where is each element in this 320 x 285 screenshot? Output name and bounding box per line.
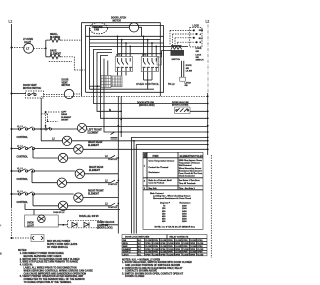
wire branch tops — [46, 40, 49, 57]
svg-text:BLK: BLK — [199, 38, 204, 40]
svg-text:Resistance: Resistance — [149, 171, 161, 174]
connector control board left hatch — [100, 76, 111, 88]
svg-text:L1 L1: L1 L1 — [17, 191, 24, 193]
svg-text:CLOSE: CLOSE — [168, 254, 175, 256]
svg-text:LOCK: LOCK — [193, 26, 200, 28]
wire left front element to L2 — [87, 125, 208, 127]
wire cluster B joiner — [144, 80, 153, 89]
svg-text:ELEMENT: ELEMENT — [61, 117, 72, 119]
svg-text:LIGHT: LIGHT — [27, 225, 34, 227]
connector control board right hatch — [90, 76, 123, 87]
wire latch bus4 — [90, 45, 189, 47]
svg-text:LATCH: LATCH — [123, 253, 129, 256]
svg-text:CLOSE: CLOSE — [160, 252, 167, 254]
element left front — [77, 123, 86, 132]
wire shunt row B — [32, 173, 111, 183]
wire latch cluster drops B — [144, 36, 157, 56]
junction feeder on element wire — [133, 140, 135, 142]
svg-text:SHUNT: SHUNT — [61, 120, 69, 122]
motor door latch — [129, 23, 138, 32]
svg-text:2: 2 — [144, 181, 146, 183]
svg-text:Bay Sub: Bay Sub — [149, 188, 158, 190]
svg-text:OPEN: OPEN — [160, 243, 166, 245]
svg-text:B: B — [200, 42, 202, 44]
wire left rear element row — [41, 140, 208, 142]
svg-text:1450: 1450 — [182, 210, 187, 213]
junction vent drop row — [40, 128, 42, 130]
wire right rear to L2 — [83, 148, 208, 150]
svg-text:RIGHT FRONT: RIGHT FRONT — [88, 191, 104, 193]
wire ribbon w5 — [107, 61, 109, 76]
svg-text:OPEN: OPEN — [190, 249, 196, 251]
svg-text:REAR: REAR — [61, 113, 67, 116]
svg-text:LEFT: LEFT — [61, 111, 67, 113]
svg-text:OPEN: OPEN — [145, 249, 151, 251]
connector power block dashed — [190, 28, 202, 47]
svg-text:OPEN: OPEN — [175, 249, 181, 251]
svg-text:CLOSE: CLOSE — [183, 254, 190, 256]
svg-text:Check Connector: Check Connector — [179, 174, 195, 177]
svg-text:DOOR MTR SW: DOOR MTR SW — [137, 102, 155, 104]
svg-text:2250: 2250 — [182, 221, 187, 223]
svg-text:L2: L2 — [105, 156, 108, 158]
table elements cycles header — [143, 153, 203, 158]
wire cluster B to latch assembly — [162, 51, 172, 58]
table door lock switches frame — [122, 235, 207, 256]
lamp oven light — [24, 43, 34, 53]
svg-text:CLOSE: CLOSE — [153, 243, 160, 245]
element right front shunt — [57, 178, 66, 187]
svg-text:(DOOR LOCK): (DOOR LOCK) — [97, 228, 113, 230]
wire ribbon w3 — [101, 56, 208, 119]
wire lock relay to L2 — [190, 110, 208, 112]
svg-text:OPEN: OPEN — [190, 243, 196, 245]
svg-text:Degrees F: Degrees F — [160, 202, 171, 205]
svg-text:CLOSE: CLOSE — [145, 240, 152, 242]
wire latch bus2 — [90, 39, 161, 41]
svg-text:OPEN: OPEN — [145, 254, 151, 256]
wire bundle verticals — [170, 30, 178, 45]
switch door vent — [26, 91, 44, 98]
svg-text:CLOSE: CLOSE — [197, 243, 204, 245]
svg-text:BROIL: BROIL — [123, 243, 128, 245]
svg-text:OF OVEN MODULE: OF OVEN MODULE — [47, 247, 68, 249]
svg-text:CLOSE: CLOSE — [197, 254, 204, 256]
connector power splice — [31, 235, 44, 242]
svg-text:ELEMENT: ELEMENT — [50, 54, 62, 56]
label door switch column — [196, 48, 204, 62]
box oven control outer — [82, 23, 161, 97]
wire row B — [13, 170, 76, 172]
svg-text:SMALL: SMALL — [50, 33, 59, 36]
svg-text:OPEN: OPEN — [197, 246, 203, 248]
wire latch bus1 — [86, 35, 164, 37]
svg-text:SW: SW — [196, 51, 199, 53]
wire ribbon w1 — [93, 50, 207, 104]
notes left block — [18, 250, 93, 284]
junction lamp branch — [45, 47, 47, 49]
svg-text:LK SW: LK SW — [186, 71, 192, 73]
wire latch bus3 — [90, 42, 164, 44]
svg-text:ELEMENT: ELEMENT — [88, 132, 100, 134]
node connector terminals — [193, 29, 198, 43]
switch surface row B — [18, 169, 34, 172]
wire blower to control box — [62, 39, 82, 41]
switch latch assembly body — [171, 50, 185, 56]
wire L1 to oven light — [12, 47, 25, 49]
svg-text:SW: SW — [185, 85, 188, 87]
svg-text:OPEN: OPEN — [183, 240, 189, 242]
svg-text:FAN: FAN — [94, 29, 99, 32]
wire connector leads bundle — [170, 30, 196, 42]
svg-text:CONNECTED TO THE SENSOR WELL O: CONNECTED TO THE SENSOR WELL OF THE SENS… — [24, 279, 86, 281]
svg-text:OPEN: OPEN — [175, 254, 181, 256]
svg-text:SUPPLY CORD AND LEADS: SUPPLY CORD AND LEADS — [47, 243, 78, 246]
svg-text:CLOSE: CLOSE — [175, 252, 182, 254]
wire vent motor return — [74, 93, 82, 95]
wire mid bus vertical a — [117, 96, 119, 206]
svg-text:(DOOR LOCK): (DOOR LOCK) — [139, 105, 155, 107]
svg-text:ELEMENT: ELEMENT — [89, 170, 101, 172]
junction L1 taps — [11, 47, 13, 240]
svg-text:VENT: VENT — [62, 82, 69, 84]
svg-text:OPEN: OPEN — [197, 252, 203, 254]
wire row C — [13, 193, 74, 195]
table door lock cells — [123, 239, 204, 256]
svg-text:N.O.: N.O. — [138, 252, 142, 254]
svg-text:MOTOR SWITCH: MOTOR SWITCH — [23, 88, 42, 90]
svg-text:CAN CAUSE IMPROPER AND DANGERO: CAN CAUSE IMPROPER AND DANGEROUS OPERATI… — [24, 272, 87, 275]
table door lock header — [125, 236, 189, 239]
junction shunt — [45, 111, 47, 113]
label left rear shunt — [61, 111, 72, 121]
svg-text:PARALLEL SW #3: PARALLEL SW #3 — [79, 215, 99, 218]
notes right block — [122, 258, 192, 278]
wire branch vertical — [45, 40, 47, 57]
svg-text:CLOSE: CLOSE — [153, 254, 160, 256]
resistor bake element — [49, 55, 61, 59]
table elements cycles cell text — [144, 160, 175, 190]
wire console dashed separator — [41, 95, 208, 97]
svg-text:OPEN: OPEN — [168, 246, 174, 248]
wire shunt dashed taps — [41, 114, 58, 121]
junction mid bus dots — [117, 110, 122, 204]
svg-text:5. VERIFY PROPER OPERATION AFT: 5. VERIFY PROPER OPERATION AFTER SERVICI… — [20, 275, 84, 278]
svg-text:OPEN: OPEN — [160, 249, 166, 251]
svg-text:BKR SPLICE POWER: BKR SPLICE POWER — [47, 241, 71, 243]
wire L1 splice dashed — [13, 237, 32, 239]
box latch plunger — [180, 77, 186, 81]
svg-text:OPEN: OPEN — [160, 254, 166, 256]
table elements cycles grid — [143, 152, 203, 190]
svg-text:L1: L1 — [9, 20, 13, 24]
svg-text:3. WIRE ATR PLEASE RETURN PRIM: 3. WIRE ATR PLEASE RETURN PRIMARY TO RAN… — [20, 261, 79, 264]
junction light wire — [62, 224, 64, 226]
svg-text:DOORS CLOSED: DOORS CLOSED — [125, 275, 145, 278]
wire bottom feeder verticals — [132, 137, 208, 233]
svg-text:OPEN: OPEN — [153, 246, 159, 248]
svg-text:N: N — [109, 108, 111, 112]
motor oven vent — [64, 89, 73, 98]
svg-text:CONTROL: CONTROL — [17, 179, 29, 181]
svg-text:L2: L2 — [206, 20, 210, 24]
svg-text:LOCK: LOCK — [196, 54, 202, 56]
svg-text:1. DISCONNECT POWER FROM RANGE: 1. DISCONNECT POWER FROM RANGE — [20, 252, 64, 255]
table sensor resistance text — [150, 192, 196, 229]
switch surface row A — [18, 146, 34, 149]
svg-text:CONTROL: CONTROL — [108, 207, 117, 209]
svg-text:SWITCH: SWITCH — [172, 59, 181, 61]
svg-text:NOTE: 1 to 6 VOLTS DC AT SENSO: NOTE: 1 to 6 VOLTS DC AT SENSOR thru — [155, 226, 196, 229]
svg-text:BAKE: BAKE — [50, 50, 57, 53]
element right front B — [75, 169, 84, 178]
element right rear — [74, 145, 83, 154]
svg-text:BEFORE SERVICING UNIT CHECK: BEFORE SERVICING UNIT CHECK — [24, 256, 62, 258]
svg-text:N.O.: N.O. — [138, 246, 142, 248]
svg-text:OPEN: OPEN — [153, 252, 159, 254]
svg-text:N.C.: N.C. — [138, 254, 142, 256]
wire cluster B drops — [144, 72, 153, 81]
svg-text:CLOSE: CLOSE — [190, 240, 197, 242]
svg-text:CLOSE: CLOSE — [190, 252, 197, 254]
switch surface row C — [18, 192, 34, 195]
lamp bottom oven light — [38, 215, 46, 223]
wire latch motor feed — [93, 26, 129, 28]
wire vent branch down — [40, 98, 42, 141]
label connector pins — [199, 30, 204, 44]
svg-text:RIGHT REAR: RIGHT REAR — [88, 141, 103, 144]
svg-text:CLOSE: CLOSE — [168, 243, 175, 245]
svg-text:L2: L2 — [105, 181, 108, 183]
element bake C — [58, 201, 67, 210]
svg-text:Disconnect Resistance At Oven: Disconnect Resistance At Oven Check — [153, 197, 192, 200]
svg-text:Oven Temperature Sensor: Oven Temperature Sensor — [149, 160, 175, 163]
svg-text:See Notes 1 Thru Door: See Notes 1 Thru Door — [179, 179, 200, 182]
svg-text:CLOSE: CLOSE — [183, 249, 190, 251]
wire latch row to latch switch — [118, 53, 162, 55]
svg-text:OVEN DR LK: OVEN DR LK — [53, 212, 65, 214]
svg-text:CLOSE: CLOSE — [153, 249, 160, 251]
svg-text:2. MOTOR ONLY TO FEATURES DOOR: 2. MOTOR ONLY TO FEATURES DOOR ONLY CLOS… — [20, 258, 80, 261]
svg-text:CONTROL: CONTROL — [17, 137, 29, 139]
element right front C — [74, 193, 83, 202]
svg-text:MOTOR: MOTOR — [113, 20, 122, 22]
svg-text:WHEN SERVICING CONTROLS. WIRIN: WHEN SERVICING CONTROLS. WIRING ERRORS C… — [24, 269, 94, 272]
wire oven light to elements — [34, 47, 45, 49]
svg-text:CLOSE: CLOSE — [160, 246, 167, 248]
box cluster B side stub — [157, 57, 162, 65]
wire bake aux dashed — [49, 61, 72, 63]
svg-text:CONTROL: CONTROL — [17, 202, 29, 204]
svg-text:L2: L2 — [52, 138, 55, 140]
svg-text:CLOSE: CLOSE — [145, 246, 152, 248]
wire light to parallel switch — [58, 224, 67, 226]
box oven control mid — [86, 26, 164, 93]
wire to left front element — [35, 128, 78, 130]
svg-text:450: 450 — [162, 215, 166, 218]
svg-text:DOOR VENT: DOOR VENT — [23, 85, 37, 87]
element left rear — [62, 136, 71, 145]
wire latch assembly drops — [182, 61, 184, 77]
svg-text:OPEN: OPEN — [168, 252, 174, 254]
svg-text:(DOOR LOCKED): (DOOR LOCKED) — [172, 104, 189, 106]
svg-text:OPEN: OPEN — [197, 240, 203, 242]
wire surface top row — [13, 128, 46, 130]
svg-text:ELEMENT: ELEMENT — [88, 194, 100, 196]
wire ribbon w2 — [97, 53, 121, 112]
svg-text:OPEN: OPEN — [175, 243, 181, 245]
svg-text:CLOSE: CLOSE — [175, 246, 182, 248]
wire L1 bus dashed lower — [11, 207, 13, 238]
svg-text:4. USED IN:: 4. USED IN: — [20, 264, 33, 267]
svg-text:Bake In a Preheat, Broil: Bake In a Preheat, Broil — [149, 179, 173, 182]
svg-text:1 3 5 2: 1 3 5 2 — [116, 55, 122, 57]
wire ribbon w4 — [104, 59, 208, 133]
svg-text:SW: SW — [196, 57, 199, 59]
switch latch assembly arrows — [171, 46, 182, 50]
switch shunt B contact — [111, 180, 119, 183]
svg-text:OVEN: OVEN — [27, 223, 34, 225]
svg-text:LT: LT — [26, 47, 29, 51]
wire mid bus vertical b — [120, 96, 122, 137]
svg-text:OPEN: OPEN — [183, 252, 189, 254]
svg-text:CLOSE: CLOSE — [160, 240, 167, 242]
svg-text:DOOR UNLOCK: DOOR UNLOCK — [97, 222, 115, 224]
switch left front contacts — [45, 128, 47, 130]
svg-text:Thru All Terminals: Thru All Terminals — [179, 182, 196, 185]
svg-text:LT OVEN: LT OVEN — [23, 39, 33, 41]
svg-text:CONTROL: CONTROL — [108, 159, 117, 161]
table door lock grid — [122, 238, 207, 253]
svg-text:OPEN: OPEN — [145, 243, 151, 245]
wire shunt row C — [33, 196, 111, 206]
switch shunt A contact — [111, 155, 119, 158]
scan artifact left edge — [0, 253, 2, 255]
svg-text:L1 L1: L1 L1 — [17, 126, 24, 128]
svg-text:NOTES:: NOTES: — [18, 250, 27, 252]
box oven light bottom — [25, 215, 59, 227]
svg-text:OPEN: OPEN — [168, 240, 174, 242]
svg-text:DOOR: DOOR — [62, 80, 69, 82]
svg-text:DOOR LATCH: DOOR LATCH — [111, 17, 126, 20]
resistor oven blower — [49, 38, 61, 42]
wire L2 bus dashed lower — [210, 155, 212, 258]
wire L2 bus solid middle — [207, 93, 209, 155]
svg-text:Control the Thermal: Control the Thermal — [149, 166, 169, 169]
svg-text:SWITCH: SWITCH — [196, 60, 204, 62]
svg-text:OPEN: OPEN — [183, 246, 189, 248]
svg-text:1: 1 — [144, 166, 146, 168]
svg-text:1240: 1240 — [182, 207, 187, 210]
svg-text:ELEMENTS/CYCLES: ELEMENTS/CYCLES — [180, 155, 204, 158]
svg-text:GRN: GRN — [199, 30, 204, 32]
svg-text:L1 L1: L1 L1 — [17, 146, 24, 148]
svg-text:ELEMENT: ELEMENT — [123, 249, 132, 251]
svg-text:Well Detected: Well Detected — [179, 164, 192, 167]
svg-text:MOTOR: MOTOR — [62, 85, 71, 87]
svg-text:DOOR: DOOR — [196, 48, 203, 50]
svg-text:CLOSE: CLOSE — [168, 249, 175, 251]
switch surface top — [18, 127, 34, 130]
svg-text:DOOR: DOOR — [186, 65, 192, 67]
svg-text:L1 L1: L1 L1 — [17, 168, 24, 170]
svg-text:LABEL ALL WIRES PRIOR TO DISCO: LABEL ALL WIRES PRIOR TO DISCONNECTION — [24, 267, 77, 270]
svg-text:CLOSE: CLOSE — [175, 240, 182, 242]
wire shunt row A — [33, 150, 111, 158]
wire parallel sw to bus — [101, 206, 118, 234]
wire L2 bus dash-dot upper — [207, 25, 209, 94]
wire oven light row — [25, 204, 120, 216]
svg-text:N.C.: N.C. — [138, 243, 142, 245]
svg-text:OPEN: OPEN — [153, 240, 159, 242]
wire row A — [13, 148, 74, 150]
wire shunt drop — [46, 112, 61, 129]
svg-text:1 3 5 2: 1 3 5 2 — [142, 55, 148, 57]
wire row B to bus — [85, 173, 119, 175]
svg-text:DOOR LK: DOOR LK — [123, 252, 132, 254]
element right rear shunt — [58, 153, 67, 162]
switch door lock cluster B — [141, 57, 158, 72]
svg-text:TO L2: TO L2 — [168, 84, 175, 86]
junction latch bus dots — [117, 35, 157, 47]
switch door lock cluster A — [115, 57, 132, 72]
svg-text:OPEN: OPEN — [190, 254, 196, 256]
svg-text:TO RANGE OPERATION AT THE TERM: TO RANGE OPERATION AT THE TERMINAL — [24, 281, 73, 284]
svg-text:ELEMENT: ELEMENT — [88, 145, 100, 147]
svg-text:Conv la Preheat: Conv la Preheat — [149, 182, 165, 185]
fan cooling fan ellipse — [90, 23, 108, 34]
svg-text:OVEN CONTROL: OVEN CONTROL — [136, 82, 160, 86]
svg-text:650: 650 — [162, 221, 166, 223]
svg-text:CONTROL: CONTROL — [17, 156, 29, 158]
svg-text:Resistance: Resistance — [180, 202, 192, 205]
switch shunt C contact — [111, 203, 119, 206]
wire row C to bus — [83, 197, 118, 199]
svg-text:RIGHT REAR: RIGHT REAR — [89, 166, 104, 169]
wire cluster A to connector — [118, 72, 127, 76]
wire L1 to vent switch — [12, 93, 27, 95]
wire L1 bus — [11, 24, 13, 207]
svg-text:BAKE: BAKE — [123, 245, 129, 248]
svg-text:LEFT FRONT: LEFT FRONT — [88, 130, 103, 132]
wire latch motor drop — [139, 27, 142, 36]
wire bake element return — [62, 57, 86, 70]
wire vent switch to motor — [44, 94, 65, 96]
svg-text:Thru - See Note 3: Thru - See Note 3 — [179, 187, 195, 190]
svg-text:CLOSE: CLOSE — [145, 252, 152, 254]
svg-text:CONTROL: CONTROL — [108, 184, 117, 186]
wire into hatch — [90, 85, 101, 87]
wire latch cluster drops A — [118, 36, 131, 56]
svg-text:LATCH: LATCH — [185, 82, 192, 85]
svg-text:PWR: PWR — [153, 154, 159, 158]
switch door lock relay — [175, 107, 191, 114]
switch mid contacts — [111, 132, 118, 139]
svg-text:N.C.: N.C. — [138, 249, 142, 251]
junction L2 taps — [207, 95, 209, 150]
svg-text:CLOSE: CLOSE — [190, 246, 197, 248]
switch parallel diodes — [68, 220, 102, 228]
svg-text:A: A — [200, 33, 202, 36]
svg-text:CLOSE: CLOSE — [197, 249, 204, 251]
svg-text:CLOSE: CLOSE — [183, 243, 190, 245]
box oven control inner — [90, 28, 155, 89]
table elements cycles frame — [143, 152, 203, 229]
svg-text:N.O.: N.O. — [138, 240, 142, 242]
svg-text:L2: L2 — [105, 204, 108, 206]
